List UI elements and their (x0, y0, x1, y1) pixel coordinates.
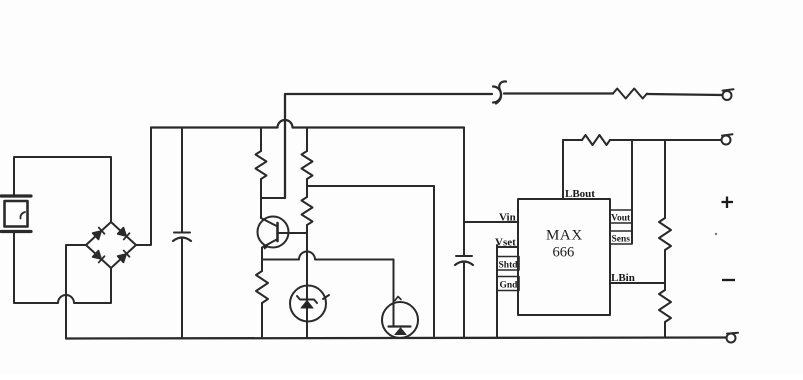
svg-text:Gnd: Gnd (500, 281, 519, 291)
svg-text:Vout: Vout (611, 214, 631, 224)
svg-text:LBout: LBout (565, 188, 595, 200)
svg-text:666: 666 (553, 245, 575, 261)
svg-text:Vin: Vin (499, 212, 516, 224)
svg-text:Sens: Sens (612, 235, 631, 245)
svg-text:MAX: MAX (546, 228, 583, 244)
svg-text:Shtd: Shtd (499, 261, 519, 271)
svg-text:LBin: LBin (611, 272, 635, 284)
svg-text:Vset: Vset (495, 237, 516, 249)
